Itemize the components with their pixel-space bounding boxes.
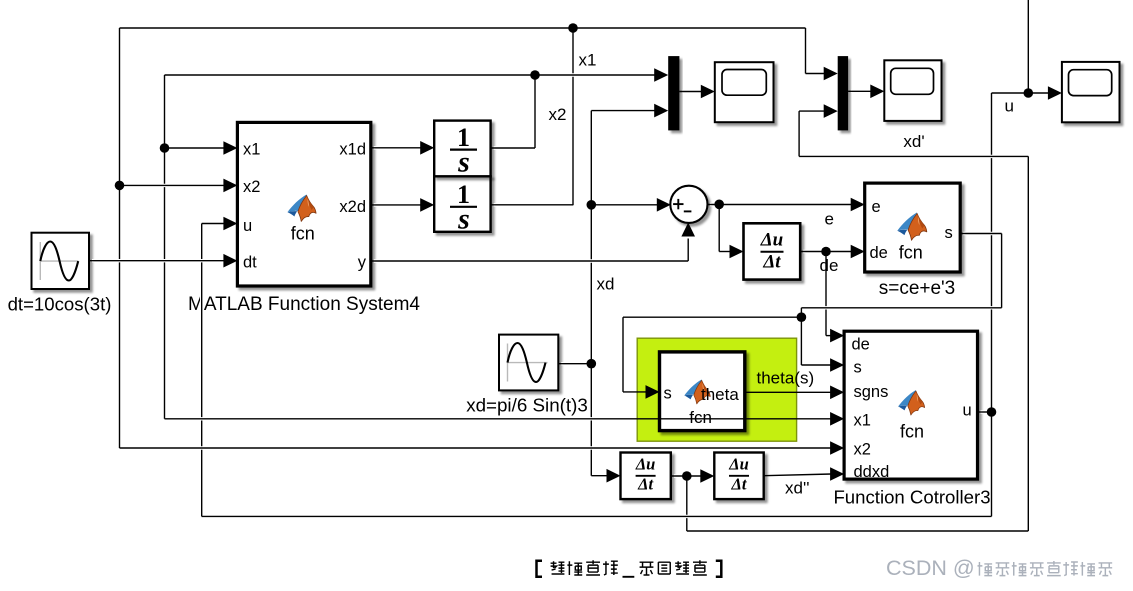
wire y to sum minus vertical (687, 239, 690, 262)
theta fcn text (689, 408, 712, 427)
svg-text:s: s (854, 359, 862, 377)
scope 2 (xd-prime) (884, 60, 941, 121)
FC3 port label ddxd (854, 463, 890, 481)
arrow into derivative2 (607, 469, 621, 483)
wire mux2 in2 vertical (797, 111, 800, 156)
arrow into derivative3 (700, 469, 714, 483)
arrow into System4 u (223, 217, 237, 231)
svg-text:s=ce+e'3: s=ce+e'3 (879, 278, 956, 299)
label Function Cotroller3 (833, 487, 990, 508)
wire xd-prime corner to derivative2 (591, 474, 608, 477)
svg-text:x2: x2 (854, 441, 871, 459)
arrow into FC3 x2 (830, 441, 844, 455)
svg-text:dt=10cos(3t): dt=10cos(3t) (8, 294, 112, 315)
source block dt=10cos(3t) sine wave (32, 233, 90, 289)
label x2 (wire) (549, 105, 567, 124)
arrow into scope3 (1048, 86, 1062, 100)
wire theta s input horizontal (623, 391, 647, 393)
svg-text:Δu: Δu (760, 229, 783, 250)
svg-text:de: de (820, 256, 839, 275)
derivative block 2 (du/dt) (621, 453, 671, 500)
sum block (+/-) (670, 186, 707, 223)
label xd'' (wire) (785, 479, 809, 498)
highlight area (green) (637, 338, 796, 441)
junction xd-prime (682, 471, 692, 481)
wire u left vertical (200, 224, 203, 517)
FC3 port label de (852, 336, 870, 354)
label xd' (903, 132, 924, 151)
junction s (797, 312, 807, 322)
arrow into theta s (646, 385, 660, 399)
s=ce port label s (945, 224, 953, 242)
wire x2 long to FC3 (120, 446, 832, 449)
wire x1 left vertical (163, 75, 166, 419)
wire dt from sine to System4 (89, 259, 226, 262)
svg-text:sgns: sgns (854, 383, 889, 401)
svg-text:e: e (825, 210, 834, 229)
derivative 3 fraction (728, 455, 749, 494)
wire derivative3 out to FC3 ddxd (764, 474, 832, 476)
wire FC3 u output (978, 410, 992, 413)
wire theta(s) out to FC3 sgns (745, 391, 832, 393)
wire xd-prime down vertical (685, 476, 688, 531)
wire u to scope3 horizontal (992, 91, 1050, 94)
theta MATLAB logo (684, 379, 710, 403)
wire sine xd to junction (558, 362, 591, 365)
svg-text:MATLAB Function System4: MATLAB Function System4 (188, 294, 420, 315)
svg-text:fcn: fcn (900, 422, 924, 442)
wire s net to theta horizontal (623, 316, 801, 319)
svg-text:Δt: Δt (762, 251, 781, 272)
junction xd at sine (587, 359, 597, 369)
wire s branch vertical to FC3 (800, 317, 803, 365)
label MATLAB Function System4 (188, 294, 420, 315)
FC3 port label s (854, 359, 862, 377)
arrow into scope1 (701, 85, 715, 99)
wire x2 tap to System4 x2 input (120, 184, 226, 187)
svg-text:Δt: Δt (637, 474, 653, 493)
svg-text:Function Cotroller3: Function Cotroller3 (833, 487, 990, 508)
junction e (714, 200, 724, 210)
wire x1 tap to System4 x1 input (165, 146, 226, 149)
wire sum out to e input (707, 203, 852, 206)
wire xd-prime bottom horizontal (687, 529, 1029, 532)
svg-text:CSDN @: CSDN @ (886, 556, 975, 580)
label de (wire) (820, 256, 839, 275)
derivative block 3 (du/dt) (714, 453, 763, 500)
mux 2 (scope xd-prime) (838, 56, 848, 130)
MATLAB Function block s=ce+e'3 (865, 183, 961, 272)
wire integrator1 out (491, 146, 535, 149)
svg-text:x2: x2 (243, 178, 260, 196)
svg-text:de: de (852, 336, 870, 354)
System4 MATLAB logo (287, 195, 316, 222)
svg-text:de: de (870, 244, 888, 262)
FC3 fcn text (900, 422, 924, 442)
FC3 MATLAB logo (898, 390, 925, 415)
junction xd at sum row (587, 200, 597, 210)
theta port label s (664, 385, 672, 403)
svg-text:fcn: fcn (689, 408, 712, 427)
arrow into mux1 in1 (654, 68, 668, 82)
label theta(s) (wire) (757, 369, 815, 388)
theta name text (701, 385, 739, 404)
System4 port label u (243, 217, 252, 235)
integrator 1 fraction (450, 123, 477, 178)
svg-text:u: u (963, 402, 972, 420)
svg-text:ddxd: ddxd (854, 463, 890, 481)
mux 1 (scope x1/xd) (668, 56, 679, 130)
arrow into FC3 sgns (830, 386, 844, 400)
label s=ce+e'3 (879, 278, 956, 299)
arrow into integrator2 (420, 198, 434, 212)
svg-text:xd': xd' (903, 132, 924, 151)
svg-text:x1: x1 (579, 51, 597, 70)
System4 port label x1d (339, 141, 366, 159)
MATLAB Function block Function Cotroller3 (844, 331, 977, 479)
svg-text:u: u (243, 217, 252, 235)
junction x2 top (568, 23, 578, 33)
wire s net jog vertical (800, 308, 803, 317)
wire u corner to System4 u input (202, 222, 226, 225)
svg-text:s: s (664, 385, 672, 403)
arrow into mux1 in2 (654, 104, 668, 118)
wire y out of System4 (371, 259, 688, 262)
arrow into mux2 in1 (824, 67, 838, 81)
label dt=10cos(3t) (8, 294, 112, 315)
MATLAB Function block theta (highlighted) (660, 352, 745, 431)
svg-text:s: s (945, 224, 953, 242)
arrow into sum plus (657, 198, 671, 212)
System4 port label x2d (339, 198, 366, 216)
arrow into System4 x2 (223, 179, 237, 193)
label u (wire, scope3) (1005, 97, 1014, 116)
System4 port label y (358, 254, 367, 272)
svg-text:e: e (872, 198, 881, 216)
arrow into s=ce de (851, 245, 865, 259)
wire u feedback bottom (202, 515, 992, 518)
arrow into s=ce e (851, 198, 865, 212)
wire de branch to FC3 de (826, 335, 832, 337)
wire x2 top feedback horizontal (120, 26, 806, 29)
wire mux1 in2 (xd) (591, 109, 655, 112)
arrow into sum minus (up) (681, 223, 695, 237)
derivative block 1 (du/dt) (744, 223, 801, 279)
arrow into System4 dt (223, 254, 237, 268)
s=ce port label de (870, 244, 888, 262)
wire mux2 in1 horizontal (806, 72, 825, 75)
s=ce MATLAB logo (897, 213, 927, 241)
s=ce fcn text (899, 243, 923, 263)
wire e branch to derivative1 (719, 250, 731, 253)
svg-text:xd'': xd'' (785, 479, 809, 498)
System4 port label dt (243, 254, 257, 272)
wire x1d to integrator1 (371, 146, 421, 149)
FC3 port label sgns (854, 383, 889, 401)
svg-text:s: s (457, 145, 470, 178)
wire xd vertical (590, 111, 593, 476)
System4 port label x2 (243, 178, 260, 196)
svg-text:Δu: Δu (635, 455, 656, 474)
svg-text:x1d: x1d (339, 141, 366, 159)
wire xd-prime right vertical (1027, 156, 1030, 531)
svg-text:s: s (457, 203, 470, 236)
arrow into FC3 de (830, 329, 844, 343)
label x1 (wire) (579, 51, 597, 70)
svg-text:x2: x2 (549, 105, 567, 124)
wire xd-prime to mux2 horizontal (799, 155, 1028, 158)
svg-text:Δt: Δt (731, 474, 747, 493)
s=ce port label e (872, 198, 881, 216)
MATLAB Function block System4 (237, 122, 370, 286)
source block xd=pi/6 Sin(t)3 sine wave (499, 335, 558, 391)
svg-text:u: u (1005, 97, 1014, 116)
FC3 port label x2 (854, 441, 871, 459)
FC3 port label x1 (854, 412, 871, 430)
wire x1 riser from integrator1 (533, 75, 536, 148)
derivative 2 fraction (635, 455, 656, 494)
wire scope3 vertical from top (1027, 0, 1030, 93)
wire derivative2 out (671, 474, 702, 477)
derivative 1 fraction (760, 229, 784, 272)
wire mux2 in2 horizontal (799, 109, 824, 112)
scope 3 (u) (1062, 62, 1120, 122)
arrow into FC3 x1 (830, 412, 844, 426)
wire sum plus input (xd) (591, 203, 658, 206)
wire mux2 out to scope2 (848, 90, 872, 93)
junction x1 riser top (530, 70, 540, 80)
System4 fcn text (291, 224, 315, 244)
arrow into scope2 (870, 85, 884, 99)
svg-text:x2d: x2d (339, 198, 366, 216)
wire e branch vertical (718, 205, 721, 252)
wire de out to s=ce de input (800, 250, 852, 253)
label xd=pi/6 Sin(t)3 (466, 395, 588, 416)
svg-text:xd: xd (597, 275, 615, 294)
integrator block 2 (1/s) (434, 121, 490, 177)
label e (wire) (825, 210, 834, 229)
wire s to theta vertical (621, 317, 624, 392)
wire de branch vertical (824, 252, 827, 336)
svg-text:fcn: fcn (291, 224, 315, 244)
junction u at scope3 (1024, 88, 1034, 98)
arrow into derivative1 (730, 245, 744, 259)
wire mux2 in1 vertical (804, 28, 807, 74)
label xd (wire) (597, 275, 615, 294)
scope 1 (715, 62, 774, 122)
junction x1 input tap (160, 143, 170, 153)
svg-text:Δu: Δu (728, 455, 749, 474)
integrator 2 fraction (450, 180, 477, 235)
arrow into FC3 ddxd (830, 467, 844, 481)
svg-text:xd=pi/6 Sin(t)3: xd=pi/6 Sin(t)3 (466, 395, 588, 416)
junction x2 input tap (115, 181, 125, 191)
svg-text:y: y (358, 254, 367, 272)
svg-text:dt: dt (243, 254, 257, 272)
arrow into mux2 in2 (824, 104, 838, 118)
svg-text:x1: x1 (243, 141, 260, 159)
wire x1 top horizontal (165, 73, 656, 76)
wire x2 riser at x=573 (571, 28, 574, 205)
wire s net upper horizontal (801, 306, 1001, 309)
wire s out of s=ce (960, 232, 1001, 235)
caption (sliding-mode control _ continuous function) (537, 560, 722, 577)
svg-text:theta: theta (701, 385, 739, 404)
arrow into System4 x1 (223, 141, 237, 155)
svg-text:fcn: fcn (899, 243, 923, 263)
System4 port label x1 (243, 141, 260, 159)
wire integrator2 out to corner (491, 203, 573, 206)
wire s net riser at x=1001.6 (1000, 234, 1003, 308)
wire x2 left vertical (118, 28, 121, 448)
integrator block 1 (1/s) (434, 176, 490, 232)
wire mux1 out to scope1 (679, 90, 703, 93)
svg-text:theta(s): theta(s) (757, 369, 815, 388)
arrow into FC3 s (830, 358, 844, 372)
watermark CSDN (886, 556, 1112, 580)
wire s branch to FC3 s (801, 363, 831, 366)
FC3 port label u (963, 402, 972, 420)
arrow into integrator1 (420, 141, 434, 155)
svg-text:x1: x1 (854, 412, 871, 430)
wire x1 long to FC3 (165, 417, 832, 420)
wire x2d to integrator2 (371, 203, 421, 206)
wire u feedback right vertical (990, 93, 993, 516)
junction de (821, 247, 831, 257)
junction u at FC3 out (987, 407, 997, 417)
